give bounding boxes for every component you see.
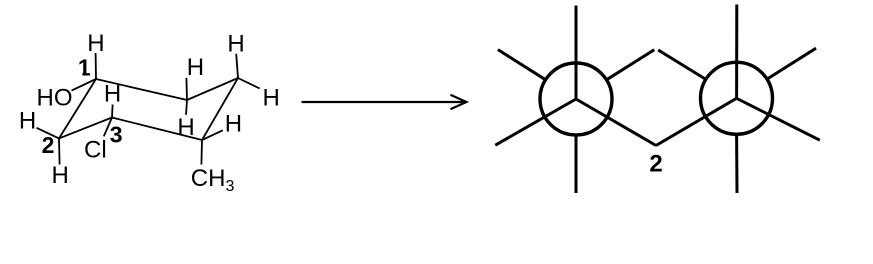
svg-text:3: 3	[110, 121, 123, 147]
svg-text:Cl: Cl	[84, 137, 107, 164]
wire bond C4-H equatorial	[202, 130, 223, 140]
wire bond C2-H equatorial left	[37, 128, 60, 139]
wire bond C6-H axial up	[185, 78, 188, 100]
svg-text:H: H	[187, 54, 204, 81]
wire bond C4-CH3 axial down	[200, 140, 203, 165]
Newman circle right	[701, 62, 773, 134]
svg-text:H: H	[52, 162, 69, 189]
wire ring bond C5-C6	[187, 78, 238, 100]
wire left back bond up-left	[498, 50, 546, 80]
wire ring bond C6-C1	[96, 79, 187, 100]
wire right front bond down-left to valley node	[656, 98, 737, 145]
wire ring bond C4-C5	[202, 78, 238, 140]
wire left front bond down-right to valley node	[576, 99, 656, 146]
wire left front bond down-left	[495, 99, 576, 145]
wire arrow shaft	[302, 101, 466, 103]
svg-text:H: H	[87, 30, 104, 57]
wire bond C5-H equatorial right	[238, 78, 260, 89]
svg-text:2: 2	[649, 151, 662, 178]
wire left front bond up	[575, 6, 578, 100]
svg-text:H: H	[104, 81, 121, 108]
wire bond C2-H axial down	[58, 138, 61, 164]
arrowhead	[450, 95, 466, 110]
Newman circle left (front/back atoms C)	[540, 63, 612, 135]
wire bond C3-H up	[111, 105, 114, 118]
svg-text:2: 2	[42, 132, 55, 158]
wire ring bond C2-C3	[59, 118, 112, 139]
wire bond C6-H equatorial down	[186, 100, 187, 115]
svg-text:H: H	[263, 85, 280, 112]
wire right back bond down	[735, 136, 738, 193]
wire right back bond up-left toward peak	[658, 50, 706, 79]
svg-text:HO: HO	[37, 85, 73, 112]
svg-text:H: H	[227, 31, 244, 58]
wire right front bond down-right	[737, 98, 820, 140]
wire right front bond up	[735, 5, 738, 99]
wire bond C5-H axial up	[236, 54, 238, 78]
wire left back bond up-right toward peak	[607, 50, 655, 80]
wire ring bond C3-C4	[112, 118, 202, 141]
svg-text:H: H	[225, 110, 242, 137]
wire bond C1-OH	[72, 79, 97, 91]
svg-text:H: H	[19, 107, 36, 134]
wire bond C3-Cl	[104, 118, 112, 137]
wire right back bond up-right	[767, 48, 816, 79]
wire left back bond down	[575, 136, 578, 193]
wire ring bond C1-C2	[59, 79, 96, 138]
svg-text:H: H	[177, 114, 194, 141]
wire bond C1-H axial up	[95, 53, 97, 79]
